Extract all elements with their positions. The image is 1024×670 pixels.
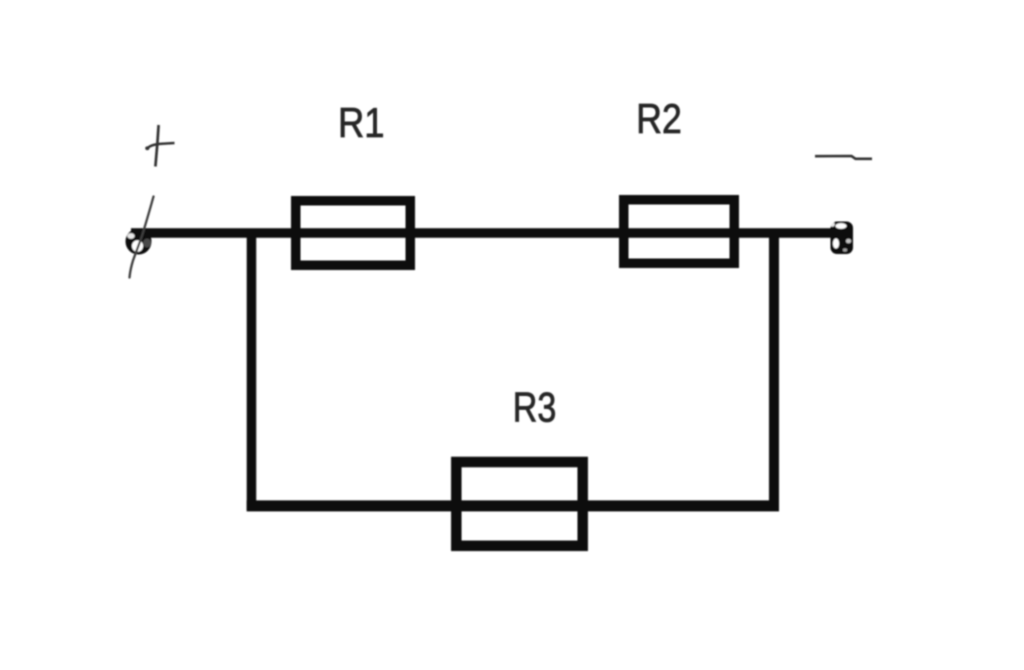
wire: top horizontal wire from + terminal to - terminal [131,228,851,238]
resistor R1 [296,201,411,266]
wire: bottom horizontal wire through R3 [247,500,779,511]
resistor R3 [456,462,582,546]
symbol: plus sign (+ terminal) [145,125,174,167]
lead: thin pencil stroke through left terminal [130,197,154,278]
svg-text:R1: R1 [338,99,385,146]
svg-text:R2: R2 [636,95,682,142]
svg-text:R3: R3 [513,384,557,431]
node: left battery terminal blob [126,229,152,255]
resistor R2 [624,200,735,264]
wire: right vertical branch wire [769,231,779,511]
symbol: minus sign (- terminal) [815,156,872,159]
node: right battery terminal blob [830,222,853,255]
wire: left vertical branch wire [247,231,257,511]
